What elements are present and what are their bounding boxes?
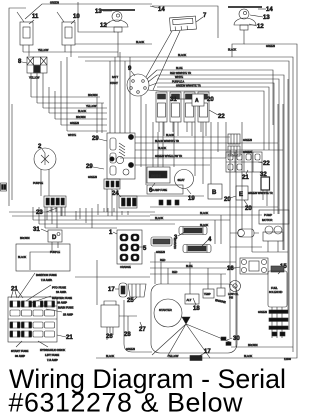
svg-text:7.5 AMP: 7.5 AMP [47,358,58,362]
wire white y79 [157,79,279,214]
svg-text:ALT: ALT [187,298,192,302]
svg-text:BLACK: BLACK [106,355,115,358]
horn circle 13 (right) [239,9,249,19]
svg-text:PURPLE: PURPLE [33,182,43,185]
svg-text:19: 19 [188,196,195,202]
svg-text:BLACK: BLACK [78,110,87,113]
connector pins [159,200,163,205]
svg-text:16: 16 [227,266,234,272]
svg-text:YELLOW: YELLOW [29,77,40,80]
svg-text:21: 21 [66,335,73,341]
svg-text:18: 18 [193,306,200,312]
fuse block 21 [8,297,57,342]
svg-text:GREEN: GREEN [266,45,275,48]
connector 1 [117,230,142,264]
battery box 26 [101,305,119,327]
connector 8 [27,57,47,73]
svg-text:10 AMP.: 10 AMP. [56,290,67,294]
svg-text:BLACK: BLACK [158,147,167,150]
wire pump feeds [215,215,262,247]
starter [154,299,182,327]
svg-text:GREEN W/WHITE TR: GREEN W/WHITE TR [176,85,201,88]
svg-text:MOTOR: MOTOR [262,218,272,222]
svg-text:SEAT: SEAT [178,178,185,182]
wire black y150 [135,149,283,151]
wire from right horn [232,30,244,57]
svg-text:PSI: PSI [229,297,233,300]
wire bundle right edge [278,79,288,310]
wire seat/meter drops [153,122,158,167]
svg-text:29: 29 [92,136,99,142]
wire bus y57 [78,57,293,352]
wire top run [152,6,218,38]
svg-text:7.5 AMP.: 7.5 AMP. [41,278,52,282]
svg-text:SOLENOID: SOLENOID [269,290,283,294]
pump motor [259,210,289,224]
oil pressure switch [230,281,241,292]
wire green diagonal from switch 11 [25,4,152,19]
relay E 20 [236,186,248,200]
wire yellow y=52 [23,51,118,53]
svg-text:BLACK: BLACK [136,41,145,44]
horn bracket 14 (right) [228,6,262,8]
wire y165 [135,164,210,166]
wire black y137 [135,136,230,138]
solenoid connector stack [272,307,282,338]
svg-text:TEMP: TEMP [204,293,211,296]
horn bell 12 (right) [234,18,256,25]
svg-text:BLUE: BLUE [176,67,183,70]
wire y196 [120,195,204,197]
svg-text:BLACK: BLACK [200,224,209,227]
svg-text:BLACK: BLACK [166,134,175,137]
svg-text:ORANGE: ORANGE [174,238,177,249]
horn bracket 14 (center) [101,9,135,11]
wire module connector leads [107,189,117,220]
svg-text:10: 10 [73,14,80,20]
wire y91 [160,91,264,150]
svg-text:B: B [212,190,217,196]
svg-text:22: 22 [218,114,225,120]
svg-text:YELLOW: YELLOW [38,49,49,52]
svg-text:STARTER: STARTER [159,308,172,312]
svg-text:30 AMP: 30 AMP [15,354,25,358]
svg-text:BROWN: BROWN [20,237,30,240]
svg-text:MASTER FUSE: MASTER FUSE [52,296,72,300]
wire y215 y220 [150,214,262,216]
light 2 [34,148,56,170]
wire lamp connector leads [47,207,62,228]
oil sender [217,288,225,296]
engine block [151,284,237,353]
wire black/white y143 [135,142,278,144]
wire y207 [150,206,278,208]
svg-text:14: 14 [266,7,273,13]
svg-text:START: START [110,82,118,85]
horn circle 13 (center) [112,12,122,22]
wire blue y70 [157,70,273,125]
svg-text:PUMP: PUMP [264,213,272,217]
wire drops [195,122,226,184]
wire green/yellow y158 [120,157,226,159]
breaker B [208,184,222,199]
wire y277 [75,276,150,278]
relay 3 [179,227,207,235]
svg-text:GREEN: GREEN [70,122,79,125]
wire left vertical bus [9,8,26,206]
svg-text:12609: 12609 [284,358,292,361]
svg-text:17: 17 [204,349,211,355]
svg-text:BLACK: BLACK [178,54,187,57]
connector block 21 [226,152,262,172]
svg-text:15 AMP: 15 AMP [63,313,73,317]
svg-text:0000: 0000 [151,175,161,179]
svg-text:20 AMP: 20 AMP [57,301,67,305]
wire stubs [80,204,98,228]
connector 7 [170,16,197,31]
svg-text:MAIN FUSE: MAIN FUSE [58,306,74,310]
starter terminal [182,317,190,324]
svg-text:FUEL: FUEL [271,286,278,290]
wire center drops [141,96,174,185]
wire green/white y87 [157,87,269,150]
svg-text:21: 21 [11,287,18,293]
svg-text:BROWN: BROWN [76,116,86,119]
svg-text:GREEN: GREEN [258,311,267,314]
svg-text:YELLOW: YELLOW [168,355,179,358]
svg-text:RED W/WHITE TR: RED W/WHITE TR [170,72,191,75]
wire bus y61 [85,61,289,330]
svg-text:12: 12 [257,24,264,30]
svg-text:WHITE: WHITE [68,134,76,137]
svg-text:29: 29 [86,164,93,170]
switch 32 [261,177,270,190]
wire drops into module [110,52,130,133]
connector pair right-mid [228,134,240,144]
wire purple y83 [157,83,274,214]
connector left edge [1,183,7,191]
svg-text:21: 21 [242,175,249,181]
svg-text:25: 25 [127,298,134,304]
svg-text:32: 32 [260,172,267,178]
svg-text:GREEN: GREEN [50,2,59,5]
svg-text:#6312278 & Below: #6312278 & Below [9,388,244,416]
switch 11 [20,22,33,45]
svg-text:BATT: BATT [112,76,119,79]
svg-text:10 AMP FUSE: 10 AMP FUSE [151,189,167,192]
svg-text:E: E [239,192,243,198]
wire red/white y75 [157,75,284,250]
diode 17 [119,283,127,297]
svg-text:BLACK: BLACK [244,355,253,358]
wire engine feeds [150,261,236,263]
svg-text:RED: RED [160,259,165,262]
small module left of relays [151,237,172,246]
wire brown y347 [231,346,293,348]
svg-text:13: 13 [263,15,270,21]
svg-text:31: 31 [33,227,40,233]
svg-text:WHITE: WHITE [175,76,183,79]
wire battery leads [107,327,113,340]
svg-text:LIFT FUSE: LIFT FUSE [45,353,59,357]
svg-text:17: 17 [108,287,115,293]
svg-text:PURPLE A: PURPLE A [172,81,185,84]
svg-text:A: A [195,98,199,104]
svg-text:START FUSE: START FUSE [11,349,28,353]
connector below module [104,179,120,189]
wire stubs mid [104,208,128,215]
svg-text:13: 13 [95,9,102,15]
svg-text:22: 22 [263,161,270,167]
svg-text:28: 28 [124,332,131,338]
svg-text:14: 14 [158,7,165,13]
wire verticals pump area [230,122,252,347]
ignition switch 9 [127,74,149,96]
svg-text:27: 27 [139,327,146,333]
sensor cylinder [238,229,254,237]
relay 4 [183,245,211,253]
svg-text:31: 31 [170,97,177,103]
svg-text:PTO FUSE: PTO FUSE [52,286,66,290]
svg-text:BLACK: BLACK [200,212,209,215]
svg-text:GREEN W/YELLOW TR: GREEN W/YELLOW TR [155,155,182,158]
wire D-box feed [30,252,52,270]
svg-text:BLACK: BLACK [155,217,164,220]
svg-text:BLACK W/WHITE TR: BLACK W/WHITE TR [155,140,179,143]
svg-text:RED: RED [172,271,177,274]
wire rows above fuse block [9,211,155,213]
relay A [192,94,204,106]
alternator [185,294,199,304]
svg-text:BLACK: BLACK [228,49,237,52]
svg-text:BLUE: BLUE [186,265,193,268]
svg-text:D: D [52,235,57,241]
svg-text:GREEN: GREEN [243,139,252,142]
svg-text:BROWN: BROWN [88,94,98,97]
svg-text:11: 11 [32,14,39,20]
svg-text:BROWN: BROWN [248,344,258,347]
wire diagonals to ignition switch [146,31,172,77]
svg-text:ORANGE: ORANGE [120,266,131,269]
temp sender [203,289,214,298]
svg-text:30: 30 [233,336,240,342]
wire staircase left-middle [31,97,107,131]
svg-text:GREEN: GREEN [243,151,252,154]
horn bell 12 (center) [106,20,128,27]
wire stubs row extra [76,208,114,220]
fuse 10 amp [147,185,183,194]
pto switch box [16,244,70,271]
pto clutch 16 [240,258,268,274]
svg-text:BLACK: BLACK [18,256,27,259]
connector below light [44,196,66,207]
svg-text:HYDRAULIC DECK: HYDRAULIC DECK [40,348,65,352]
svg-text:GREEN: GREEN [156,251,165,254]
connector 25 [128,284,146,297]
module 29 [107,133,135,179]
svg-text:IGNITION FUSE: IGNITION FUSE [36,273,57,277]
inline connector on bottom wire [190,356,202,361]
wire from switch 10 down [78,2,115,32]
switch 10 [62,22,75,45]
seat switch 19 [175,170,194,189]
svg-text:GREEN: GREEN [126,348,135,351]
svg-text:20: 20 [207,97,214,103]
svg-text:23: 23 [36,210,43,216]
hour meter 6 [147,167,170,183]
svg-text:PURPLE: PURPLE [50,251,60,254]
svg-text:YELLOW: YELLOW [86,105,97,108]
relay bank 22 [156,92,167,122]
svg-text:GREEN: GREEN [88,176,97,179]
